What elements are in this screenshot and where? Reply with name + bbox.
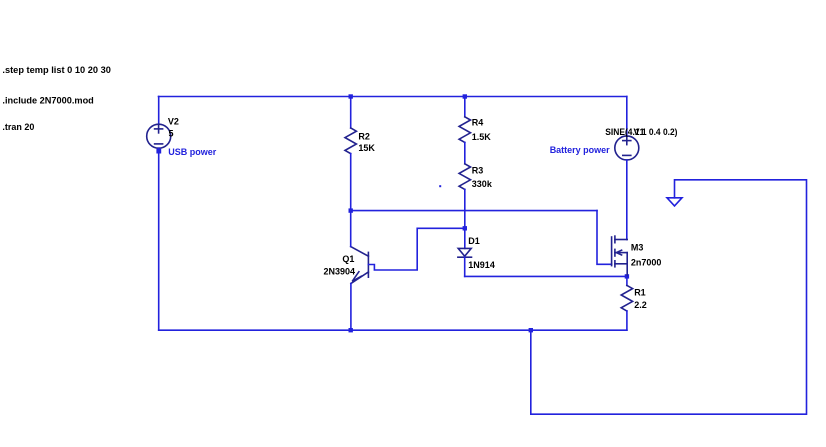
mosfet M3: [612, 236, 628, 276]
diode D1: [458, 248, 472, 257]
svg-text:330k: 330k: [472, 179, 493, 189]
svg-text:M3: M3: [631, 243, 644, 253]
svg-text:R1: R1: [634, 287, 646, 297]
wire M3 gate lead: [597, 211, 612, 265]
wire R1 bottom lead: [626, 311, 628, 330]
junction dot top rail R4: [463, 94, 467, 98]
wire mid rail: [351, 210, 597, 212]
svg-text:.tran 20: .tran 20: [2, 122, 34, 132]
svg-text:D1: D1: [468, 236, 480, 246]
junction dot source node: [625, 274, 629, 278]
wire R4 top lead: [464, 97, 466, 117]
junction dot mid rail R2: [349, 208, 353, 212]
svg-text:2.2: 2.2: [634, 300, 647, 310]
resistor R3: [459, 164, 470, 190]
svg-text:V1: V1: [634, 127, 645, 137]
transistor Q1: [351, 247, 369, 284]
svg-text:1N914: 1N914: [468, 260, 495, 270]
svg-text:2n7000: 2n7000: [631, 258, 662, 268]
resistor R4: [459, 117, 470, 143]
svg-text:2N3904: 2N3904: [324, 267, 356, 277]
wire D1 to M3 source: [465, 275, 627, 277]
svg-text:USB power: USB power: [168, 147, 217, 157]
wire battery to M3 drain: [626, 160, 628, 240]
stray dot: [439, 185, 441, 187]
wire V2 bottom lead: [158, 148, 160, 330]
resistor R2: [345, 128, 356, 154]
wire V2 top lead: [158, 97, 160, 125]
wire battery top lead: [626, 97, 628, 136]
junction dot base wire at D1: [463, 226, 467, 230]
svg-text:5: 5: [169, 128, 174, 138]
junction dot bottom rail Q1: [349, 328, 353, 332]
svg-text:R4: R4: [472, 118, 484, 128]
wire R2 top lead: [350, 97, 352, 129]
junction dot top rail R2: [349, 94, 353, 98]
wire Q1 base to D1: [368, 228, 464, 270]
wire Q1 emitter lead: [350, 284, 352, 331]
svg-text:.step temp list 0 10 20 30: .step temp list 0 10 20 30: [2, 65, 111, 75]
wire R3 to D1: [464, 189, 466, 248]
wire bottom rail: [159, 329, 627, 331]
voltage source V1 battery: [615, 136, 639, 160]
ground: [667, 198, 682, 206]
svg-text:15K: 15K: [358, 143, 375, 153]
svg-text:1.5K: 1.5K: [472, 132, 492, 142]
svg-text:R3: R3: [472, 166, 484, 176]
wire R4-R3 link: [464, 142, 466, 163]
wire top rail: [159, 96, 627, 98]
voltage source V2: [147, 124, 171, 148]
svg-text:Q1: Q1: [342, 254, 354, 264]
wire Q1 collector lead: [350, 211, 352, 247]
wire ground loop: [531, 180, 807, 414]
node dot at V2 minus: [156, 149, 161, 154]
junction dot bottom rail ground loop: [529, 328, 533, 332]
wire R2 bottom lead: [350, 154, 352, 211]
wire D1 cathode lead: [464, 257, 466, 276]
svg-text:V2: V2: [168, 116, 179, 126]
svg-text:R2: R2: [358, 131, 370, 141]
svg-text:.include 2N7000.mod: .include 2N7000.mod: [2, 96, 93, 106]
svg-text:Battery power: Battery power: [550, 145, 610, 155]
resistor R1: [621, 285, 632, 311]
wire R1 top lead: [626, 276, 628, 285]
